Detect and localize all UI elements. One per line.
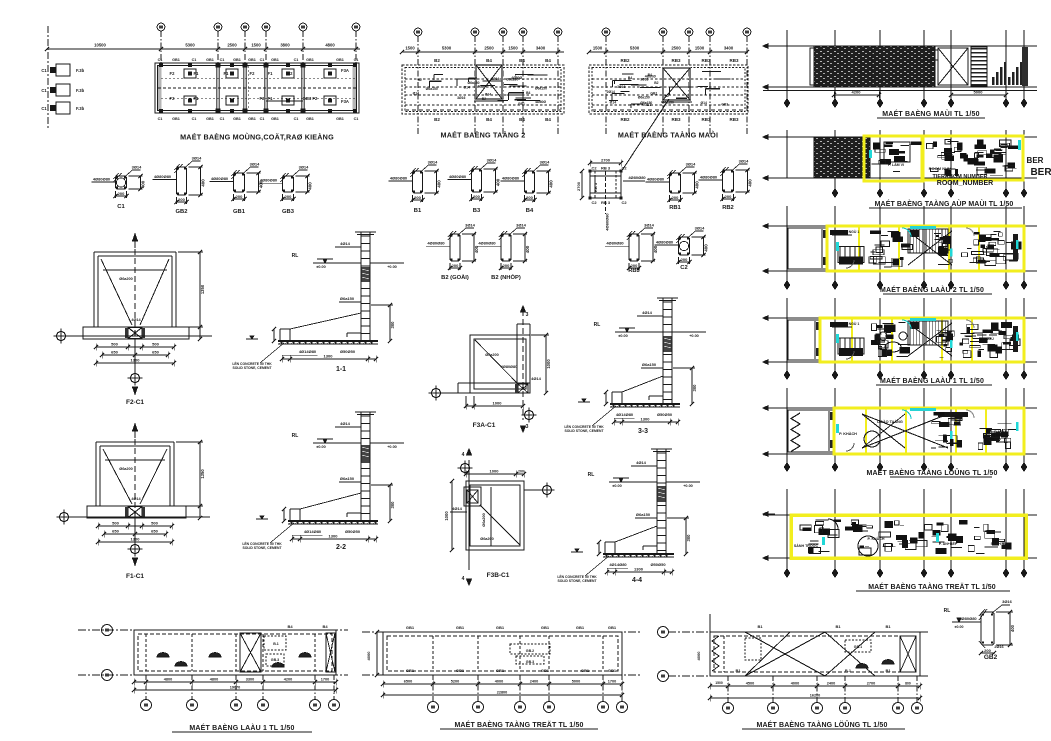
svg-text:DOÀO TAÀNG: DOÀO TAÀNG (877, 419, 903, 424)
svg-text:C1: C1 (41, 68, 47, 73)
svg-text:GB1: GB1 (518, 102, 525, 106)
svg-text:6500: 6500 (404, 680, 412, 684)
svg-text:400: 400 (748, 179, 753, 187)
svg-text:MAÉT BAÈNG MAÙI TL 1/50: MAÉT BAÈNG MAÙI TL 1/50 (882, 109, 979, 118)
svg-text:400: 400 (549, 180, 554, 188)
svg-text:400: 400 (308, 182, 313, 190)
svg-text:4000: 4000 (366, 651, 371, 661)
svg-text:B1: B1 (885, 668, 891, 673)
svg-text:2700: 2700 (601, 158, 611, 163)
svg-text:400: 400 (141, 180, 146, 188)
svg-text:P. NGÙ: P. NGÙ (982, 245, 994, 250)
svg-text:B2: B2 (434, 58, 440, 63)
svg-text:5300: 5300 (185, 43, 195, 48)
svg-text:RL: RL (292, 433, 299, 439)
svg-text:300: 300 (390, 501, 395, 509)
svg-text:B2: B2 (482, 97, 486, 101)
svg-text:RB 3: RB 3 (601, 200, 611, 205)
svg-text:300: 300 (390, 321, 395, 329)
svg-text:C1: C1 (192, 117, 197, 121)
svg-text:P. NGÙ: P. NGÙ (994, 429, 1006, 434)
svg-text:B2 (NHÒP): B2 (NHÒP) (491, 273, 521, 281)
svg-text:Ø50Ø50: Ø50Ø50 (340, 349, 356, 354)
svg-text:4Ø14: 4Ø14 (531, 376, 542, 381)
svg-text:400: 400 (496, 178, 501, 186)
svg-text:3400: 3400 (536, 46, 546, 51)
svg-text:B2: B2 (418, 78, 422, 82)
svg-text:2700: 2700 (576, 181, 581, 191)
svg-text:GB1: GB1 (248, 58, 256, 62)
svg-text:650: 650 (111, 350, 118, 355)
svg-text:RB3: RB3 (628, 268, 640, 274)
svg-text:MAÉT BAÈNG TAÀNG 2: MAÉT BAÈNG TAÀNG 2 (441, 131, 526, 140)
svg-text:RB1: RB1 (669, 205, 681, 211)
svg-text:C1: C1 (260, 117, 265, 121)
svg-text:GB1: GB1 (306, 58, 314, 62)
svg-text:GB1: GB1 (233, 117, 241, 121)
svg-text:4800: 4800 (210, 678, 218, 682)
svg-text:SOLID STONE, CEMENT: SOLID STONE, CEMENT (557, 579, 597, 583)
svg-text:F1-C1: F1-C1 (126, 573, 144, 580)
svg-text:±0.00: ±0.00 (612, 484, 621, 488)
svg-text:F2: F2 (170, 71, 176, 76)
svg-text:B2 (GOÀI): B2 (GOÀI) (441, 274, 469, 281)
svg-text:B1: B1 (735, 668, 741, 673)
svg-text:C2: C2 (591, 166, 597, 171)
svg-text:B1: B1 (835, 624, 841, 629)
svg-text:GB2: GB2 (176, 209, 188, 215)
svg-text:Ø6a150: Ø6a150 (340, 296, 355, 301)
svg-text:F1: F1 (268, 96, 274, 101)
svg-text:Ø6a200: Ø6a200 (119, 467, 133, 471)
svg-text:GB1: GB1 (271, 117, 279, 121)
svg-text:B4: B4 (519, 117, 525, 122)
svg-text:GB1: GB1 (496, 668, 505, 673)
svg-text:3-3: 3-3 (638, 428, 648, 435)
svg-text:4Ø80Ø80: 4Ø80Ø80 (260, 178, 278, 183)
svg-text:4Ø14: 4Ø14 (131, 318, 141, 322)
svg-text:3Ø14: 3Ø14 (516, 223, 527, 228)
svg-text:2Ø16: 2Ø16 (994, 645, 1003, 649)
svg-text:GB1: GB1 (456, 625, 465, 630)
svg-text:F3A-C1: F3A-C1 (473, 422, 496, 429)
svg-text:GB.3: GB.3 (526, 660, 534, 664)
svg-text:Ø6a150: Ø6a150 (640, 101, 652, 105)
svg-text:B4: B4 (322, 624, 328, 629)
svg-text:300: 300 (692, 384, 697, 392)
svg-text:500: 500 (112, 521, 119, 526)
svg-text:Ø6a150: Ø6a150 (638, 95, 650, 99)
svg-text:B.1: B.1 (273, 642, 279, 646)
svg-text:B4: B4 (519, 58, 525, 63)
svg-text:F2: F2 (260, 96, 266, 101)
svg-text:BER: BER (1030, 167, 1051, 178)
svg-text:MAÉT BAÈNG TAÀNG AÙP MAÙI TL: MAÉT BAÈNG TAÀNG AÙP MAÙI TL 1/50 (875, 199, 1014, 208)
svg-text:1300: 1300 (131, 358, 141, 363)
svg-text:MAÉT BAÈNG LAÀU 2 TL 1/50: MAÉT BAÈNG LAÀU 2 TL 1/50 (880, 285, 984, 294)
svg-text:F2: F2 (250, 71, 256, 76)
svg-text:F1: F1 (194, 96, 200, 101)
svg-text:RL: RL (292, 253, 299, 259)
svg-text:3Ø16: 3Ø16 (1002, 599, 1013, 604)
svg-text:RB3: RB3 (729, 117, 738, 122)
svg-text:3Ø16: 3Ø16 (457, 96, 465, 100)
svg-text:4Ø80Ø80: 4Ø80Ø80 (959, 616, 977, 621)
svg-text:16200: 16200 (810, 694, 821, 698)
svg-text:19070: 19070 (230, 686, 241, 690)
svg-text:RL: RL (588, 472, 595, 478)
svg-text:F.3b: F.3b (76, 106, 85, 111)
svg-text:B1: B1 (757, 624, 763, 629)
svg-text:F.3b: F.3b (76, 88, 85, 93)
svg-text:1700: 1700 (321, 678, 329, 682)
svg-text:4Ø14Ø80: 4Ø14Ø80 (304, 529, 322, 534)
svg-text:RB2: RB2 (722, 205, 734, 211)
svg-text:200: 200 (118, 191, 125, 196)
svg-text:GB2: GB2 (984, 654, 998, 661)
svg-text:2500: 2500 (484, 46, 494, 51)
svg-text:1500: 1500 (508, 46, 518, 51)
svg-text:Ø50Ø50: Ø50Ø50 (657, 412, 673, 417)
svg-text:4Ø80Ø80: 4Ø80Ø80 (502, 175, 520, 180)
svg-text:Ø6a200: Ø6a200 (480, 537, 494, 541)
svg-text:5300: 5300 (442, 46, 452, 51)
svg-text:1700: 1700 (608, 680, 616, 684)
svg-text:4Ø14: 4Ø14 (340, 421, 351, 426)
svg-text:+0.00: +0.00 (387, 265, 397, 269)
svg-text:GB1: GB1 (206, 117, 214, 121)
svg-text:4Ø14: 4Ø14 (340, 241, 351, 246)
svg-text:400: 400 (1010, 624, 1015, 632)
svg-text:GB1: GB1 (248, 117, 256, 121)
svg-text:Ø6a150: Ø6a150 (506, 77, 518, 81)
svg-text:5200: 5200 (451, 680, 459, 684)
svg-text:C1: C1 (192, 58, 197, 62)
svg-text:P. NGÙ 1: P. NGÙ 1 (845, 229, 860, 234)
svg-text:GB.2: GB.2 (526, 649, 534, 653)
svg-text:3Ø14: 3Ø14 (695, 226, 706, 231)
svg-text:RB3: RB3 (671, 117, 680, 122)
svg-text:3Ø14: 3Ø14 (250, 162, 261, 167)
svg-text:4Ø80Ø80: 4Ø80Ø80 (656, 240, 674, 245)
svg-text:P. NGÙ: P. NGÙ (982, 336, 994, 341)
svg-text:3Ø14: 3Ø14 (192, 156, 203, 161)
svg-text:500: 500 (111, 342, 118, 347)
svg-text:400: 400 (695, 181, 700, 189)
svg-text:4Ø80Ø: 4Ø80Ø (535, 100, 546, 104)
svg-text:4000: 4000 (791, 682, 799, 686)
svg-text:4Ø80Ø80: 4Ø80Ø80 (605, 213, 610, 231)
svg-text:2500: 2500 (227, 43, 237, 48)
svg-text:200: 200 (681, 257, 688, 262)
svg-text:GB1: GB1 (336, 58, 344, 62)
svg-text:B4: B4 (545, 117, 551, 122)
svg-text:GB.1: GB.1 (854, 645, 862, 649)
svg-text:1300: 1300 (131, 537, 141, 542)
svg-text:GB1: GB1 (336, 117, 344, 121)
svg-text:RB2: RB2 (620, 58, 629, 63)
svg-text:3Ø14: 3Ø14 (132, 165, 143, 170)
svg-text:2-2: 2-2 (336, 544, 346, 551)
svg-text:400: 400 (704, 244, 709, 252)
svg-text:Ø6a150: Ø6a150 (467, 81, 479, 85)
svg-text:GB1: GB1 (406, 625, 415, 630)
svg-text:±0.00: ±0.00 (955, 625, 964, 629)
svg-text:P. LÀM VI: P. LÀM VI (888, 162, 904, 167)
svg-text:1500: 1500 (593, 46, 603, 51)
svg-text:4Ø80Ø80: 4Ø80Ø80 (478, 241, 496, 246)
svg-text:C1: C1 (354, 117, 359, 121)
svg-text:GB.3: GB.3 (271, 658, 279, 662)
svg-text:650: 650 (112, 529, 119, 534)
svg-text:200: 200 (725, 194, 732, 199)
svg-text:GB1: GB1 (721, 103, 728, 107)
svg-text:Ø6a150: Ø6a150 (426, 87, 438, 91)
svg-text:GB1: GB1 (456, 668, 465, 673)
svg-text:P. ÀN+BÊP: P. ÀN+BÊP (939, 541, 958, 546)
svg-text:Ø6a150: Ø6a150 (642, 362, 657, 367)
svg-text:Ø14: Ø14 (485, 93, 492, 97)
svg-text:3800: 3800 (280, 43, 290, 48)
svg-text:200: 200 (285, 194, 292, 199)
svg-text:4-4: 4-4 (632, 577, 642, 584)
svg-text:400: 400 (525, 245, 530, 253)
svg-text:3: 3 (526, 312, 529, 318)
svg-text:4500: 4500 (746, 682, 754, 686)
svg-text:Ø6a150: Ø6a150 (535, 86, 547, 90)
svg-text:4200: 4200 (284, 678, 292, 682)
svg-text:4Ø80Ø80: 4Ø80Ø80 (501, 365, 517, 369)
svg-text:500: 500 (152, 342, 159, 347)
svg-text:B3: B3 (473, 208, 481, 214)
svg-text:GB1: GB1 (496, 625, 505, 630)
svg-text:1350: 1350 (200, 284, 205, 294)
svg-text:GB1: GB1 (608, 668, 617, 673)
svg-text:B4: B4 (545, 58, 551, 63)
svg-text:B4: B4 (526, 208, 534, 214)
svg-text:F3A: F3A (341, 68, 349, 73)
svg-text:1500: 1500 (695, 46, 705, 51)
svg-text:RB 3: RB 3 (593, 182, 598, 192)
svg-text:GB3: GB3 (282, 209, 295, 215)
svg-text:F1: F1 (268, 71, 274, 76)
svg-text:F.3b: F.3b (76, 68, 85, 73)
svg-text:400: 400 (437, 180, 442, 188)
svg-text:MAÉT BAÈNG TAÀNG TREÄT TL 1/: MAÉT BAÈNG TAÀNG TREÄT TL 1/50 (868, 582, 996, 591)
svg-text:GB1: GB1 (541, 625, 550, 630)
svg-text:3Ø14: 3Ø14 (739, 159, 750, 164)
svg-text:RB3: RB3 (701, 117, 710, 122)
svg-text:+0.00: +0.00 (683, 484, 693, 488)
svg-text:SOLID STONE, CEMENT: SOLID STONE, CEMENT (232, 366, 272, 370)
svg-text:BER: BER (1027, 156, 1044, 165)
svg-text:4Ø80Ø80: 4Ø80Ø80 (390, 175, 408, 180)
svg-text:300: 300 (686, 534, 691, 542)
svg-text:SÀNH TRÖÔC: SÀNH TRÖÔC (794, 543, 819, 548)
svg-text:F2-C1: F2-C1 (126, 399, 144, 406)
svg-text:Ø50Ø50: Ø50Ø50 (345, 529, 361, 534)
svg-text:3Ø14: 3Ø14 (487, 158, 498, 163)
svg-text:2Ø14: 2Ø14 (478, 85, 486, 89)
svg-text:B2: B2 (654, 81, 658, 85)
svg-text:4Ø14Ø80: 4Ø14Ø80 (616, 412, 634, 417)
svg-text:5300: 5300 (630, 46, 640, 51)
svg-text:1000: 1000 (493, 401, 503, 406)
svg-text:Ø14: Ø14 (610, 101, 617, 105)
svg-text:2400: 2400 (827, 682, 835, 686)
svg-text:3Ø14: 3Ø14 (686, 162, 697, 167)
svg-text:4000: 4000 (495, 680, 503, 684)
svg-text:3Ø16: 3Ø16 (617, 85, 625, 89)
svg-text:F1: F1 (194, 71, 200, 76)
svg-text:MAÉT BAÈNG LAÀU 1 TL 1/50: MAÉT BAÈNG LAÀU 1 TL 1/50 (880, 376, 984, 385)
svg-text:SÀNH SAU: SÀNH SAU (991, 541, 1010, 546)
svg-text:±0.00: ±0.00 (316, 265, 325, 269)
svg-text:Ø50Ø50: Ø50Ø50 (650, 562, 666, 567)
svg-text:4: 4 (462, 576, 465, 582)
svg-text:P. KHÀCH: P. KHÀCH (839, 431, 857, 436)
svg-text:4Ø80Ø80: 4Ø80Ø80 (647, 177, 665, 182)
svg-text:F2: F2 (170, 96, 176, 101)
svg-text:Ø6a200: Ø6a200 (119, 277, 133, 281)
svg-text:F3B-C1: F3B-C1 (487, 572, 510, 579)
svg-text:C1: C1 (117, 204, 125, 210)
svg-text:3Ø14: 3Ø14 (644, 223, 655, 228)
svg-text:4800: 4800 (325, 43, 335, 48)
svg-text:B1: B1 (414, 208, 422, 214)
svg-text:22800: 22800 (497, 691, 508, 695)
svg-text:200: 200 (672, 195, 679, 200)
svg-text:3Ø14: 3Ø14 (428, 160, 439, 165)
svg-text:4Ø14Ø80: 4Ø14Ø80 (299, 349, 317, 354)
svg-text:5000: 5000 (974, 90, 984, 95)
svg-text:4Ø80Ø80: 4Ø80Ø80 (427, 241, 445, 246)
svg-text:800: 800 (905, 682, 911, 686)
svg-text:3Ø14: 3Ø14 (540, 160, 551, 165)
svg-text:Ø6a200: Ø6a200 (485, 353, 499, 357)
svg-text:C2: C2 (621, 200, 627, 205)
svg-text:C2: C2 (621, 166, 627, 171)
svg-text:±0.00: ±0.00 (618, 334, 627, 338)
svg-text:±0.00: ±0.00 (316, 445, 325, 449)
svg-text:RB3: RB3 (729, 58, 738, 63)
svg-text:RL: RL (594, 322, 601, 328)
svg-text:4Ø80Ø80: 4Ø80Ø80 (154, 174, 172, 179)
svg-text:4Ø80Ø80: 4Ø80Ø80 (93, 176, 111, 181)
svg-text:MAÉT BAÈNG MOÙNG,COÄT,RAØ KIEÀ: MAÉT BAÈNG MOÙNG,COÄT,RAØ KIEÀNG (180, 133, 334, 142)
svg-text:4Ø80Ø80: 4Ø80Ø80 (211, 176, 229, 181)
svg-text:+0.00: +0.00 (387, 445, 397, 449)
svg-text:200: 200 (984, 648, 991, 653)
svg-text:4Ø14: 4Ø14 (642, 310, 653, 315)
svg-text:C1: C1 (260, 58, 265, 62)
svg-text:4Ø14Ø80: 4Ø14Ø80 (609, 562, 627, 567)
svg-text:C1: C1 (220, 117, 225, 121)
svg-text:1500: 1500 (251, 43, 261, 48)
svg-text:Ø14: Ø14 (413, 91, 420, 95)
svg-text:GB1: GB1 (233, 209, 246, 215)
svg-text:200: 200 (503, 263, 510, 268)
svg-text:1000: 1000 (546, 359, 551, 369)
svg-text:RB3: RB3 (701, 58, 710, 63)
svg-text:GB1: GB1 (233, 58, 241, 62)
svg-text:ROOM NUM: ROOM NUM (929, 166, 952, 171)
svg-text:400: 400 (653, 245, 658, 253)
svg-text:RB2: RB2 (620, 117, 629, 122)
svg-text:B1: B1 (885, 624, 891, 629)
svg-text:TIERRBOM NUMBER: TIERRBOM NUMBER (933, 174, 988, 180)
svg-text:MAÉT BAÈNG LAÀU 1 TL 1/50: MAÉT BAÈNG LAÀU 1 TL 1/50 (189, 723, 294, 732)
svg-text:4800: 4800 (164, 678, 172, 682)
svg-text:1-1: 1-1 (336, 366, 346, 373)
svg-text:1300: 1300 (634, 567, 644, 572)
svg-text:MAÉT BAÈNG TAÀNG TREÄT TL 1/: MAÉT BAÈNG TAÀNG TREÄT TL 1/50 (454, 720, 583, 729)
svg-text:SOLID STONE, CEMENT: SOLID STONE, CEMENT (564, 429, 604, 433)
svg-text:Ø14: Ø14 (463, 86, 470, 90)
svg-text:Ø6a200: Ø6a200 (482, 513, 486, 527)
svg-text:ROOM_NUMBER: ROOM_NUMBER (937, 180, 993, 187)
svg-text:GB1: GB1 (271, 58, 279, 62)
svg-text:500: 500 (151, 521, 158, 526)
svg-text:C2: C2 (680, 265, 687, 271)
svg-text:C2: C2 (591, 200, 597, 205)
svg-text:C1: C1 (158, 117, 163, 121)
svg-text:200: 200 (452, 263, 459, 268)
svg-text:C1: C1 (158, 58, 163, 62)
svg-text:3Ø14: 3Ø14 (465, 223, 476, 228)
svg-text:200: 200 (518, 470, 524, 474)
svg-text:2500: 2500 (671, 46, 681, 51)
svg-text:B2: B2 (665, 94, 669, 98)
svg-text:+0.00: +0.00 (689, 334, 699, 338)
svg-text:Ø14: Ø14 (700, 101, 707, 105)
svg-text:3400: 3400 (724, 46, 734, 51)
svg-text:1350: 1350 (200, 469, 205, 479)
svg-text:MAÉT BAÈNG TAÀNG LÖÛNG TL 1/: MAÉT BAÈNG TAÀNG LÖÛNG TL 1/50 (756, 720, 887, 729)
svg-text:4: 4 (462, 452, 465, 458)
svg-text:200: 200 (414, 195, 421, 200)
svg-text:B.1: B.1 (845, 668, 852, 673)
svg-text:10500: 10500 (94, 43, 106, 48)
svg-text:1300: 1300 (324, 354, 334, 359)
svg-text:1000: 1000 (444, 511, 449, 521)
svg-text:4000: 4000 (696, 651, 701, 661)
svg-text:MAÉT BAÈNG TAÀNG LÖÛNG TL 1/: MAÉT BAÈNG TAÀNG LÖÛNG TL 1/50 (866, 468, 997, 477)
svg-text:650: 650 (152, 350, 159, 355)
svg-text:RB3: RB3 (671, 58, 680, 63)
svg-text:C1: C1 (354, 58, 359, 62)
svg-text:2Ø14: 2Ø14 (607, 90, 615, 94)
svg-text:GB1: GB1 (206, 58, 214, 62)
svg-text:400: 400 (201, 179, 206, 187)
svg-text:B4: B4 (648, 73, 652, 77)
svg-text:1000: 1000 (490, 469, 500, 474)
svg-text:4Ø80Ø80: 4Ø80Ø80 (449, 174, 467, 179)
svg-text:C1: C1 (41, 106, 47, 111)
svg-text:2Ø14: 2Ø14 (491, 77, 499, 81)
svg-text:GB1: GB1 (541, 668, 550, 673)
svg-text:1500: 1500 (715, 681, 723, 685)
svg-text:P. NGÙ 1: P. NGÙ 1 (845, 321, 860, 326)
svg-text:GB1: GB1 (581, 668, 590, 673)
svg-text:C1: C1 (294, 117, 299, 121)
svg-text:F3A: F3A (341, 99, 349, 104)
svg-text:Ø6a150: Ø6a150 (340, 476, 355, 481)
svg-text:F1: F1 (224, 71, 230, 76)
svg-text:Ø6a150: Ø6a150 (636, 512, 651, 517)
svg-text:1500: 1500 (405, 46, 415, 51)
svg-text:RB 3: RB 3 (601, 166, 611, 171)
